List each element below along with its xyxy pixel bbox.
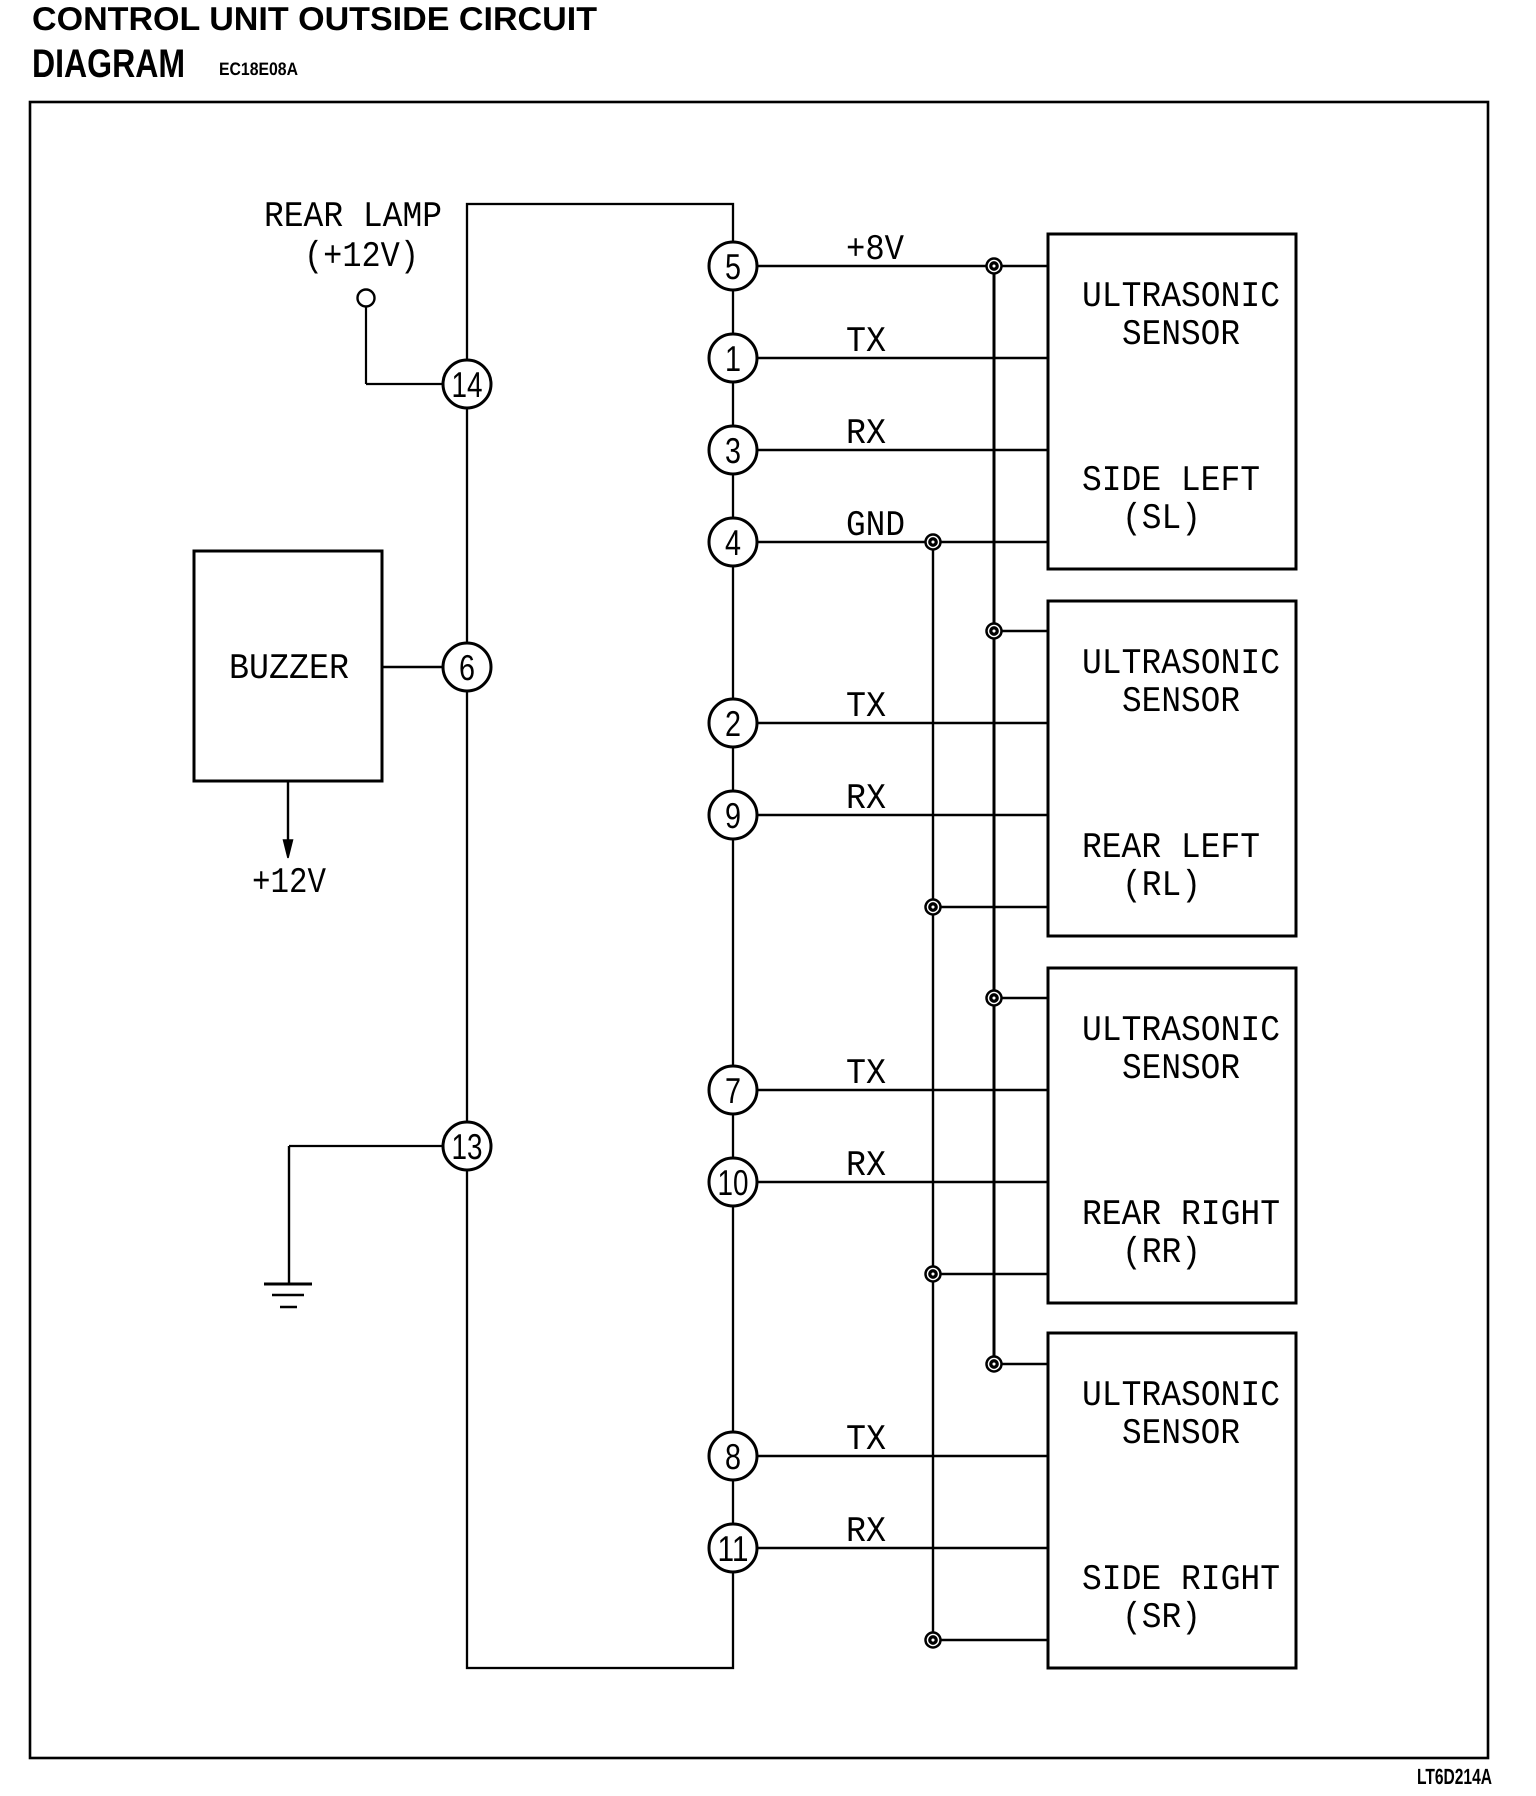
svg-text:ULTRASONIC: ULTRASONIC bbox=[1082, 1375, 1280, 1416]
svg-text:10: 10 bbox=[718, 1162, 749, 1203]
svg-text:11: 11 bbox=[718, 1528, 749, 1569]
svg-text:REAR LEFT: REAR LEFT bbox=[1082, 827, 1260, 868]
svg-text:LT6D214A: LT6D214A bbox=[1417, 1764, 1492, 1789]
svg-text:RX: RX bbox=[846, 1511, 886, 1552]
svg-text:8: 8 bbox=[725, 1436, 741, 1477]
svg-text:REAR RIGHT: REAR RIGHT bbox=[1082, 1194, 1280, 1235]
svg-text:TX: TX bbox=[846, 1053, 886, 1094]
svg-text:SENSOR: SENSOR bbox=[1122, 314, 1240, 355]
svg-text:DIAGRAM: DIAGRAM bbox=[32, 42, 185, 86]
svg-text:(RL): (RL) bbox=[1122, 865, 1201, 906]
svg-text:RX: RX bbox=[846, 1145, 886, 1186]
svg-text:CONTROL UNIT OUTSIDE CIRCUIT: CONTROL UNIT OUTSIDE CIRCUIT bbox=[32, 0, 597, 37]
svg-text:(+12V): (+12V) bbox=[304, 236, 419, 277]
svg-text:6: 6 bbox=[459, 647, 475, 688]
svg-text:5: 5 bbox=[725, 246, 741, 287]
svg-text:(RR): (RR) bbox=[1122, 1232, 1201, 1273]
svg-text:SIDE LEFT: SIDE LEFT bbox=[1082, 460, 1260, 501]
svg-text:9: 9 bbox=[725, 795, 741, 836]
svg-text:EC18E08A: EC18E08A bbox=[219, 59, 298, 79]
svg-text:GND: GND bbox=[846, 505, 905, 546]
svg-text:REAR LAMP: REAR LAMP bbox=[264, 196, 442, 237]
svg-text:1: 1 bbox=[725, 338, 741, 379]
svg-text:SENSOR: SENSOR bbox=[1122, 1413, 1240, 1454]
svg-text:ULTRASONIC: ULTRASONIC bbox=[1082, 1010, 1280, 1051]
svg-text:RX: RX bbox=[846, 778, 886, 819]
svg-text:BUZZER: BUZZER bbox=[229, 648, 349, 689]
svg-text:RX: RX bbox=[846, 413, 886, 454]
svg-text:+12V: +12V bbox=[252, 862, 326, 903]
svg-text:ULTRASONIC: ULTRASONIC bbox=[1082, 276, 1280, 317]
svg-text:SENSOR: SENSOR bbox=[1122, 1048, 1240, 1089]
svg-text:SIDE RIGHT: SIDE RIGHT bbox=[1082, 1559, 1280, 1600]
svg-text:14: 14 bbox=[452, 364, 483, 405]
svg-text:(SL): (SL) bbox=[1122, 498, 1201, 539]
svg-text:TX: TX bbox=[846, 1419, 886, 1460]
svg-text:SENSOR: SENSOR bbox=[1122, 681, 1240, 722]
svg-text:3: 3 bbox=[725, 430, 741, 471]
svg-text:(SR): (SR) bbox=[1122, 1597, 1201, 1638]
svg-text:2: 2 bbox=[725, 703, 741, 744]
svg-text:13: 13 bbox=[452, 1126, 483, 1167]
svg-text:TX: TX bbox=[846, 686, 886, 727]
svg-text:7: 7 bbox=[725, 1070, 741, 1111]
svg-text:TX: TX bbox=[846, 321, 886, 362]
svg-text:+8V: +8V bbox=[846, 229, 904, 270]
svg-text:4: 4 bbox=[725, 522, 741, 563]
svg-text:ULTRASONIC: ULTRASONIC bbox=[1082, 643, 1280, 684]
